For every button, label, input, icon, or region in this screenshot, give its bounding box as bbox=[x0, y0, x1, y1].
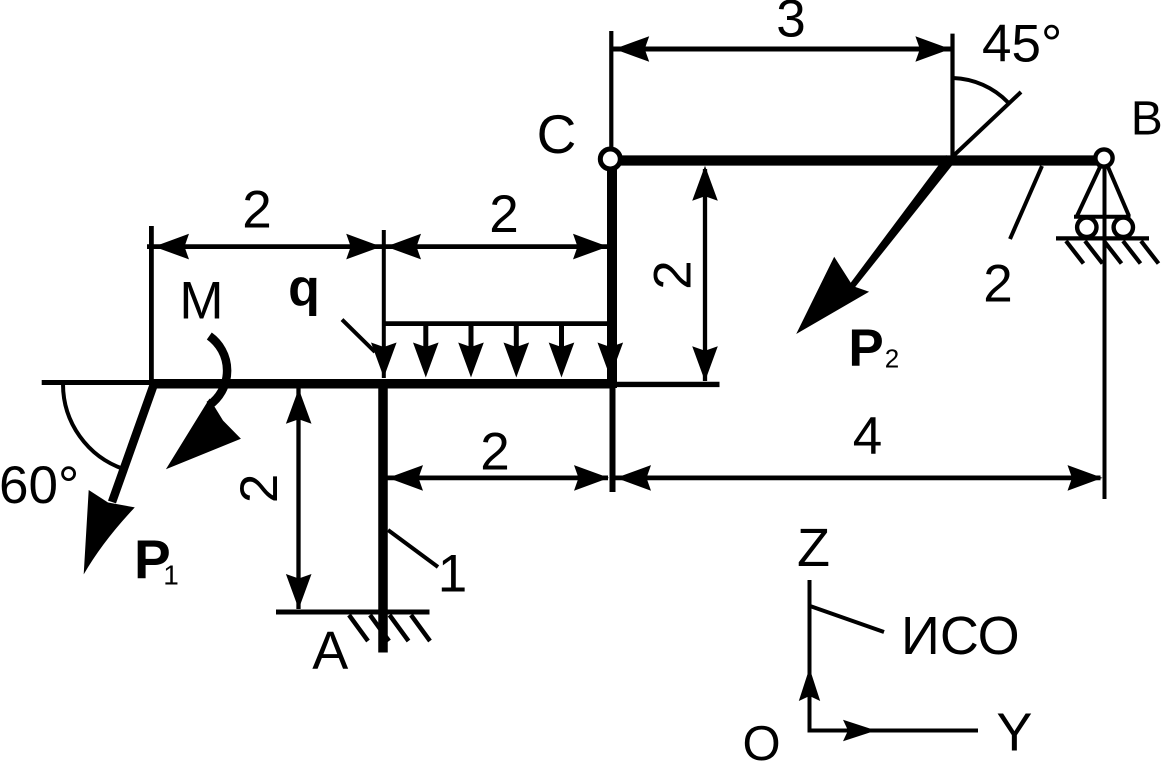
svg-text:1: 1 bbox=[163, 560, 179, 591]
svg-text:Z: Z bbox=[797, 518, 830, 578]
svg-text:2: 2 bbox=[489, 185, 518, 244]
svg-text:q: q bbox=[288, 259, 320, 317]
svg-text:C: C bbox=[537, 103, 577, 165]
svg-text:M: M bbox=[179, 272, 223, 331]
svg-text:45°: 45° bbox=[982, 15, 1062, 74]
svg-text:3: 3 bbox=[776, 0, 805, 49]
svg-text:A: A bbox=[312, 621, 348, 681]
svg-text:60°: 60° bbox=[0, 456, 79, 515]
svg-text:2: 2 bbox=[983, 255, 1012, 314]
svg-text:2: 2 bbox=[885, 344, 899, 374]
svg-text:2: 2 bbox=[643, 260, 702, 289]
svg-text:O: O bbox=[742, 717, 780, 763]
svg-text:2: 2 bbox=[480, 423, 509, 482]
svg-text:2: 2 bbox=[230, 474, 289, 503]
svg-text:B: B bbox=[1131, 93, 1161, 146]
svg-text:4: 4 bbox=[853, 407, 882, 466]
svg-text:2: 2 bbox=[242, 181, 271, 240]
svg-text:1: 1 bbox=[438, 544, 467, 603]
svg-text:Y: Y bbox=[996, 703, 1032, 763]
svg-text:P: P bbox=[848, 319, 883, 378]
svg-text:ИСО: ИСО bbox=[901, 606, 1020, 666]
